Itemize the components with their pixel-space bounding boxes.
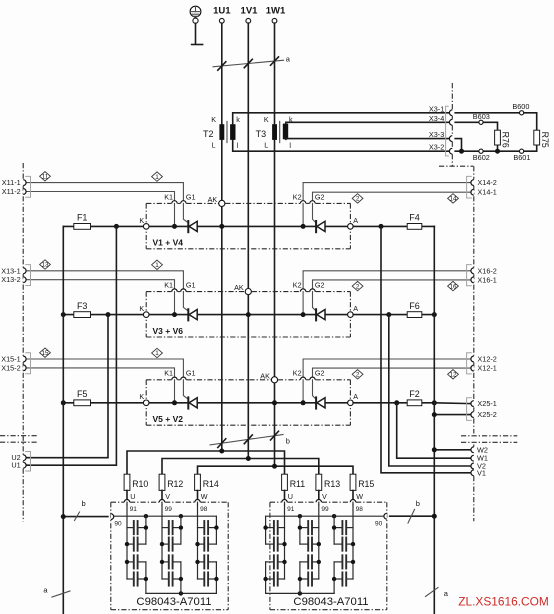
svg-text:T3: T3 [256, 129, 267, 139]
phase bus 1V1 wire [247, 23, 249, 458]
junction bus V snubber [246, 456, 251, 461]
wire snubber row W [198, 466, 354, 474]
svg-text:X3-2: X3-2 [429, 143, 444, 152]
connector X15-2 [1, 363, 26, 372]
svg-text:L: L [264, 140, 268, 149]
transformer T2 primary [203, 115, 224, 149]
svg-text:F1: F1 [77, 213, 88, 223]
three-wire group marker a (top) [213, 55, 291, 70]
connector U1 [11, 461, 26, 470]
terminal 1W1 [266, 6, 286, 24]
connector bracket X16 [467, 265, 472, 286]
node marker 11 [40, 172, 51, 181]
svg-text:X3-4: X3-4 [429, 114, 444, 123]
resistor R15 [350, 474, 374, 490]
svg-text:b: b [416, 499, 420, 508]
connector X11-2 [2, 187, 26, 196]
cabinet boundary left [0, 163, 39, 522]
wire K1 internal row1 [174, 203, 176, 226]
pin G1 row2 [181, 281, 196, 292]
wire R12 to board pin [161, 490, 163, 499]
connector V2 [471, 462, 486, 471]
svg-text:G2: G2 [315, 192, 325, 201]
svg-text:R76: R76 [501, 132, 511, 148]
junction V1 riser row1 [379, 224, 384, 229]
fuse F4 [409, 213, 420, 223]
node marker 16 [448, 281, 459, 290]
svg-text:V: V [165, 492, 170, 501]
marker b left [75, 499, 86, 521]
pin AK row3 [260, 371, 277, 383]
connector bracket X25 [467, 398, 472, 421]
connector X14-1 [471, 188, 497, 197]
svg-text:W: W [356, 492, 363, 501]
svg-text:X25-2: X25-2 [477, 410, 496, 419]
resistor R12 [159, 474, 183, 490]
junction AK row3 [272, 400, 277, 405]
junction K2 row1 [301, 224, 306, 229]
connector X15-1 [1, 355, 26, 364]
junction V2 riser row2 [386, 312, 391, 317]
transformer T2 core [226, 121, 228, 142]
node marker 14 [448, 194, 459, 203]
wire row1 module [149, 225, 348, 227]
svg-text:X16-1: X16-1 [477, 275, 496, 284]
svg-text:K: K [139, 304, 144, 313]
junction K2 row3 [301, 400, 306, 405]
board pin W/98 left board [195, 492, 208, 513]
wire row2 right [353, 314, 434, 316]
fuse F2 [409, 389, 420, 399]
svg-text:X25-1: X25-1 [477, 399, 496, 408]
riser U1 wire [26, 226, 116, 465]
wire X25-2 [434, 414, 471, 416]
svg-text:K: K [139, 392, 144, 401]
board switch column x353.0 right board [332, 505, 355, 594]
node B600 [512, 102, 529, 115]
svg-text:G1: G1 [186, 192, 196, 201]
svg-text:K1: K1 [164, 192, 173, 201]
thyristor V6 [316, 309, 325, 320]
svg-text:91: 91 [130, 506, 138, 513]
svg-text:K: K [139, 216, 144, 225]
connector X3-3 [429, 130, 452, 141]
wire gate K2 to X14-2 row1 [303, 183, 471, 201]
wire gate X15-1 to G1 row3 [26, 359, 183, 377]
three-wire group marker b (bottom) [210, 431, 290, 447]
svg-text:K: K [264, 115, 269, 124]
wire T2 k to X3-1 [233, 113, 450, 124]
junction bus W snubber [272, 464, 277, 469]
board switch column x162.0 left board [160, 505, 183, 594]
svg-text:G1: G1 [186, 369, 196, 378]
wire R13 to board pin [318, 490, 320, 499]
pin G2 row1 [310, 192, 325, 203]
svg-text:1: 1 [155, 350, 159, 357]
connector X13-2 [1, 275, 26, 284]
wire bottom X3-2 to R75 [455, 145, 537, 151]
node marker 1 row1 left [152, 172, 163, 181]
svg-text:K2: K2 [293, 192, 302, 201]
terminal 1V1 [241, 6, 259, 24]
svg-text:X15-1: X15-1 [1, 355, 20, 364]
wire G1 gate lead row1 [183, 203, 188, 222]
wire snubber row V [162, 459, 319, 475]
junction X3-3 / X3-2 [459, 149, 464, 154]
board pin V/99 right board [316, 492, 329, 513]
wire gate X13-2 to K1 row2 [26, 280, 174, 289]
svg-text:X14-1: X14-1 [477, 188, 496, 197]
resistor R14 [195, 474, 219, 490]
terminal A row1 [348, 216, 359, 229]
wire gate X15-2 to K1 row3 [26, 368, 174, 377]
connector bracket X13 [25, 265, 30, 286]
pin G1 row1 [181, 192, 196, 203]
thyristor V5 [188, 397, 197, 408]
wire X3-4 to R76 [455, 122, 497, 130]
svg-text:R75: R75 [540, 132, 550, 148]
pin K1 row1 [164, 192, 177, 203]
connector X12-1 [471, 364, 497, 373]
wire b right [390, 515, 435, 517]
node marker 15 [40, 348, 51, 357]
wire T3 l to X3-3 [286, 138, 450, 141]
wire gate G2 to X12-1 row3 [313, 368, 471, 377]
wire gate X11-1 to G1 row1 [26, 183, 183, 201]
wire gate G2 to X14-1 row1 [313, 192, 471, 201]
board switch column x197.5 left board [195, 505, 218, 594]
junction AK row2 [246, 312, 251, 317]
wire row1 right [353, 225, 434, 227]
svg-text:2: 2 [356, 372, 360, 379]
node marker 12 [448, 370, 459, 379]
svg-text:A: A [353, 216, 358, 225]
wire row2 left [63, 314, 143, 316]
resistor R76 [495, 130, 511, 148]
transformer T3 secondary [283, 115, 293, 150]
fuse F5 [77, 389, 88, 399]
svg-text:98: 98 [356, 506, 364, 513]
svg-text:X3-3: X3-3 [429, 130, 444, 139]
riser U2 wire [26, 315, 108, 458]
wire T3 k to X3-4 [286, 122, 450, 123]
connector W2 [471, 445, 488, 454]
connector X3-2 [429, 143, 452, 154]
junction U1 riser row1 [114, 224, 119, 229]
wire K2 internal row2 [302, 292, 304, 315]
svg-text:C98043-A7011: C98043-A7011 [293, 596, 368, 608]
wire gate K2 to X16-2 row2 [303, 271, 471, 289]
svg-text:1: 1 [155, 262, 159, 269]
wire R10 to board pin [126, 490, 128, 499]
svg-text:16: 16 [449, 283, 457, 290]
connector X16-2 [471, 266, 497, 275]
connector X12-2 [471, 355, 497, 364]
svg-text:A: A [353, 304, 358, 313]
connector W1 [471, 454, 488, 463]
junction bus U snubber [219, 449, 224, 454]
svg-text:V5 + V2: V5 + V2 [153, 414, 184, 424]
connector bracket X12 [467, 353, 472, 374]
svg-text:91: 91 [287, 506, 295, 513]
node marker 2 row1 right [352, 194, 363, 203]
connector bracket X11 [25, 176, 30, 197]
svg-text:99: 99 [165, 506, 173, 513]
connector X13-1 [1, 266, 26, 275]
pin K2 row1 [293, 192, 306, 203]
svg-text:X13-2: X13-2 [1, 275, 20, 284]
svg-text:R15: R15 [358, 479, 374, 489]
svg-text:X13-1: X13-1 [1, 266, 20, 275]
svg-text:90: 90 [114, 520, 122, 527]
connector X3-4 [429, 114, 452, 125]
wire K2 internal row1 [302, 203, 304, 226]
wire G2 gate lead row2 [313, 292, 316, 311]
junction K1 row2 [172, 312, 177, 317]
board pin U/91 right board [282, 492, 295, 513]
wire R11 to board pin [284, 490, 286, 499]
svg-text:R13: R13 [324, 479, 340, 489]
pin K2 row3 [293, 369, 306, 380]
fuse F6 [409, 301, 420, 311]
junction X25-2 on dc bus [432, 412, 437, 417]
svg-text:AK: AK [208, 195, 218, 204]
wire X3-1 to R75 [455, 113, 537, 130]
board switch column x284.5 right board [263, 505, 286, 594]
wire gate G2 to X16-1 row2 [313, 280, 471, 289]
wire b left [63, 516, 108, 518]
svg-text:AK: AK [234, 283, 244, 292]
pin G2 row2 [310, 281, 325, 292]
connector U2 [11, 453, 26, 462]
resistor R75 [534, 130, 550, 148]
junction b right bus [432, 514, 437, 519]
gate board U10 C98043-A7011 box [111, 502, 228, 610]
riser V1 wire [381, 226, 471, 472]
terminal K row2 [139, 304, 149, 317]
wire gate K2 to X12-2 row3 [303, 359, 471, 377]
svg-text:L: L [212, 140, 216, 149]
svg-text:F4: F4 [409, 213, 420, 223]
watermark ZL.XS1616.COM [458, 595, 549, 609]
junction right bus row2 [432, 312, 437, 317]
svg-text:K1: K1 [164, 281, 173, 290]
svg-text:B600: B600 [512, 102, 529, 111]
phase bus 1U1 wire [221, 23, 223, 451]
dc line right (a) [433, 226, 435, 614]
junction W1 riser row3 [394, 400, 399, 405]
svg-text:G1: G1 [186, 281, 196, 290]
connector X14-2 [471, 178, 497, 187]
svg-text:2: 2 [356, 283, 360, 290]
svg-text:V: V [322, 492, 327, 501]
junction K1 row3 [172, 400, 177, 405]
board switch column x127.0 left board [125, 505, 148, 594]
svg-text:B602: B602 [473, 153, 490, 162]
wire row3 right [353, 402, 434, 404]
svg-text:F3: F3 [77, 301, 88, 311]
svg-text:14: 14 [449, 196, 457, 203]
svg-text:X12-2: X12-2 [477, 355, 496, 364]
junction K1 row1 [172, 224, 177, 229]
svg-text:13: 13 [41, 262, 49, 269]
board pin 90 left board [111, 514, 122, 528]
svg-text:ZL.XS1616.COM: ZL.XS1616.COM [458, 595, 549, 609]
svg-text:K2: K2 [293, 369, 302, 378]
svg-text:AK: AK [260, 371, 270, 380]
wire G2 gate lead row3 [313, 380, 316, 399]
svg-text:K: K [211, 115, 216, 124]
node B601 [513, 149, 530, 162]
junction R76 bottom [495, 149, 500, 154]
thyristor V1 [188, 221, 197, 232]
marker a bottom right [426, 588, 449, 599]
junction b left bus [61, 514, 66, 519]
svg-text:V3 + V6: V3 + V6 [153, 326, 184, 336]
board pin 90 right board [375, 513, 387, 527]
svg-text:K2: K2 [293, 281, 302, 290]
svg-text:F5: F5 [77, 389, 88, 399]
svg-text:R12: R12 [167, 479, 183, 489]
thyristor module box V3 + V6 [146, 292, 350, 337]
wire K2 internal row3 [302, 380, 304, 403]
svg-text:U: U [130, 492, 135, 501]
junction K2 row2 [301, 312, 306, 317]
svg-text:90: 90 [375, 520, 383, 527]
node marker 2 row3 right [352, 370, 363, 379]
svg-text:G2: G2 [315, 281, 325, 290]
wire T2 l to X3-2 [233, 140, 450, 151]
connector bracket X15 [25, 353, 30, 374]
wire snubber row U [127, 451, 285, 474]
dc line left (a) [62, 226, 64, 614]
wire gate X13-1 to G1 row2 [26, 271, 183, 289]
svg-text:1W1: 1W1 [266, 6, 286, 17]
svg-text:1V1: 1V1 [241, 6, 259, 17]
resistor R11 [282, 474, 306, 490]
wire K1 internal row2 [174, 292, 176, 315]
svg-text:11: 11 [42, 174, 49, 181]
wire R14 to board pin [197, 490, 199, 499]
terminal A row2 [348, 304, 359, 317]
wire K1 internal row3 [174, 380, 176, 403]
svg-text:K1: K1 [164, 369, 173, 378]
connector V1 [471, 468, 486, 477]
board internal rail left board [114, 514, 217, 596]
connector X3-1 [429, 105, 452, 116]
fuse F1 [77, 213, 88, 223]
svg-text:C98043-A7011: C98043-A7011 [136, 596, 211, 608]
riser V2 wire [389, 315, 471, 466]
node B603 [473, 112, 490, 124]
connector X11-1 [2, 178, 26, 187]
svg-text:X12-1: X12-1 [477, 364, 496, 373]
svg-text:U1: U1 [11, 461, 20, 470]
pin AK row2 [234, 283, 251, 295]
pin G1 row3 [181, 369, 196, 380]
resistor R13 [316, 474, 340, 490]
connector X3 boundary [439, 83, 473, 166]
transformer T3 primary [256, 115, 277, 149]
thyristor V4 [316, 221, 325, 232]
wire X3-3 jog down [455, 139, 461, 152]
wire row3 module [149, 402, 348, 404]
svg-text:X11-1: X11-1 [2, 178, 21, 187]
board internal rail right board [266, 514, 384, 596]
svg-text:V1: V1 [477, 468, 486, 477]
wire row2 module [149, 314, 348, 316]
svg-text:A: A [353, 392, 358, 401]
svg-text:R10: R10 [132, 479, 148, 489]
svg-text:15: 15 [41, 350, 49, 357]
svg-text:2: 2 [356, 196, 360, 203]
pin K2 row2 [293, 281, 306, 292]
wire gate X11-2 to K1 row1 [26, 192, 174, 201]
wire row1 left [63, 225, 143, 227]
svg-text:B601: B601 [513, 153, 530, 162]
board pin U/91 left board [124, 492, 137, 513]
board pin V/99 left board [159, 492, 172, 513]
svg-text:12: 12 [449, 372, 457, 379]
node marker 1 row3 left [152, 348, 163, 357]
riser W1 wire [397, 403, 471, 458]
wire G1 gate lead row3 [183, 380, 188, 399]
svg-text:b: b [82, 499, 86, 508]
thyristor V3 [188, 309, 197, 320]
resistor R10 [124, 474, 148, 490]
svg-text:G2: G2 [315, 369, 325, 378]
connector bracket U2 U1 [25, 452, 30, 472]
svg-text:X11-2: X11-2 [2, 187, 21, 196]
transformer T2 secondary [230, 115, 240, 150]
junction W2 on dc bus [432, 447, 437, 452]
cabinet boundary right [461, 166, 517, 521]
terminal K row3 [139, 392, 149, 405]
wire row3 left [63, 402, 143, 404]
pin G2 row3 [310, 369, 325, 380]
connector X25-2 [471, 410, 497, 419]
pin AK row1 [208, 195, 225, 206]
connector X16-1 [471, 275, 497, 284]
svg-text:T2: T2 [203, 129, 214, 139]
terminal 1U1 [213, 6, 231, 24]
svg-text:X3-1: X3-1 [429, 105, 444, 114]
wire F4 to dc bus corner [433, 225, 435, 227]
svg-text:k: k [236, 115, 240, 124]
svg-text:X15-2: X15-2 [1, 363, 20, 372]
svg-text:X16-2: X16-2 [477, 266, 496, 275]
svg-text:U: U [288, 492, 293, 501]
terminal A row3 [348, 392, 359, 405]
junction right bus row3 [432, 400, 437, 405]
terminal K row1 [139, 216, 149, 229]
connector X3 bracket [446, 106, 449, 156]
svg-text:R14: R14 [203, 479, 219, 489]
transformer T3 core [279, 121, 281, 142]
junction left bus row3 [61, 400, 66, 405]
node B602 [473, 149, 490, 162]
svg-text:b: b [286, 437, 290, 446]
svg-text:R11: R11 [290, 479, 306, 489]
wire G2 gate lead row1 [313, 203, 316, 222]
connector bracket X14 [467, 176, 472, 198]
thyristor module box V1 + V4 [146, 203, 350, 248]
board pin W/98 right board [350, 492, 363, 513]
board switch column x318.8 right board [298, 505, 321, 594]
svg-text:99: 99 [321, 506, 329, 513]
wire W2 [434, 449, 471, 451]
pin K1 row2 [164, 281, 177, 292]
